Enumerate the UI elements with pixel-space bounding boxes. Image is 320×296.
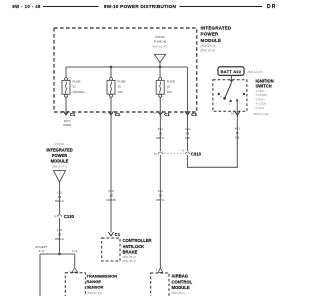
feed connector triangle xyxy=(154,54,165,62)
svg-text:C3: C3 xyxy=(191,112,197,117)
switch contact off xyxy=(218,93,223,98)
header rule right xyxy=(180,6,263,8)
wire to airbag module xyxy=(159,115,161,268)
wire label F20 18 RD/DB xyxy=(106,189,115,202)
svg-text:BR/LG: BR/LG xyxy=(55,199,65,203)
svg-text:DR: DR xyxy=(267,4,277,10)
svg-text:INTEGRATED: INTEGRATED xyxy=(201,25,232,30)
fuse F35 xyxy=(107,78,115,98)
wire to abs controller xyxy=(110,115,112,233)
fuse F32 value label xyxy=(167,79,175,93)
wire contact to pin 14 xyxy=(236,100,238,114)
wire label L10 18 BR/LG lower xyxy=(55,228,65,241)
bus wire xyxy=(66,66,188,68)
svg-text:31: 31 xyxy=(73,85,77,89)
svg-text:(8W-10-26): (8W-10-26) xyxy=(254,112,269,116)
airbag pin 8 xyxy=(156,268,163,273)
svg-text:FUSE: FUSE xyxy=(118,79,126,83)
wire bus to fuse32 xyxy=(159,67,161,117)
svg-text:FROM: FROM xyxy=(55,142,64,146)
connector C310 xyxy=(154,150,202,157)
svg-text:18: 18 xyxy=(58,195,62,199)
wire triangle to tee xyxy=(59,182,61,254)
svg-text:DB/YL: DB/YL xyxy=(156,136,165,140)
svg-text:DB/YL: DB/YL xyxy=(156,198,165,202)
airbag control module box xyxy=(151,273,169,296)
svg-text:(8W-12-47): (8W-12-47) xyxy=(152,45,167,49)
svg-text:F20: F20 xyxy=(108,189,114,193)
svg-text:POWER: POWER xyxy=(52,153,68,158)
svg-text:FUSE: FUSE xyxy=(167,79,175,83)
node junction fuse32 xyxy=(159,66,162,69)
svg-text:BRAKE: BRAKE xyxy=(123,250,138,255)
svg-text:18: 18 xyxy=(186,132,190,136)
svg-text:14: 14 xyxy=(231,111,235,115)
svg-text:8W - 10 - 48: 8W - 10 - 48 xyxy=(12,4,41,9)
integrated power module box xyxy=(54,28,197,112)
svg-text:5 ACC: 5 ACC xyxy=(256,106,266,110)
not used note xyxy=(63,119,72,127)
svg-text:MODULE: MODULE xyxy=(201,38,222,43)
node junction fuse35 xyxy=(110,66,113,69)
svg-text:AIRBAG: AIRBAG xyxy=(172,274,189,279)
except 3.7L branch label xyxy=(35,245,47,253)
wire label A41 18 DB right xyxy=(235,127,241,140)
batt A22 source box xyxy=(218,67,263,76)
svg-text:34: 34 xyxy=(53,215,57,219)
svg-text:FUSE: FUSE xyxy=(73,79,81,83)
fuse F35 value label xyxy=(118,79,126,93)
airbag control module label xyxy=(172,274,193,295)
integrated power module label xyxy=(201,25,232,52)
transmission range sensor label xyxy=(87,273,118,295)
svg-text:(8W-10-47): (8W-10-47) xyxy=(52,164,67,168)
tee junction wire xyxy=(40,253,75,255)
fuse F32 xyxy=(156,78,164,98)
svg-text:SWITCH: SWITCH xyxy=(256,83,272,88)
controller antilock brake box xyxy=(102,238,120,261)
wire except branch off page xyxy=(39,254,41,296)
svg-text:15: 15 xyxy=(153,111,157,115)
svg-text:(8W-31-15): (8W-31-15) xyxy=(87,291,102,295)
svg-text:CONTROLLER: CONTROLLER xyxy=(123,238,152,243)
svg-text:(8W-10-3): (8W-10-3) xyxy=(201,48,215,52)
svg-text:L10: L10 xyxy=(57,228,62,232)
wire bus to fuse35 xyxy=(110,67,112,117)
fuse F31 xyxy=(62,78,70,98)
switch contact acc xyxy=(241,93,245,98)
node tee xyxy=(58,253,61,256)
header rule left xyxy=(43,6,99,8)
svg-text:3.7L: 3.7L xyxy=(39,249,45,253)
pin 15 C1 xyxy=(153,111,171,117)
svg-text:POWER: POWER xyxy=(201,32,220,37)
svg-text:32: 32 xyxy=(167,85,171,89)
svg-text:CONTROL: CONTROL xyxy=(172,279,193,284)
svg-text:DB: DB xyxy=(235,135,239,139)
svg-text:18: 18 xyxy=(109,193,113,197)
svg-text:35: 35 xyxy=(118,85,122,89)
svg-text:MODULE: MODULE xyxy=(172,285,190,290)
switch contact run xyxy=(229,100,231,106)
ignition switch pivot xyxy=(223,97,226,100)
pin 4 C1 (not used) xyxy=(60,111,76,117)
svg-text:18: 18 xyxy=(236,131,240,135)
abs pin 2 C1 xyxy=(105,232,121,237)
svg-text:ANTILOCK: ANTILOCK xyxy=(123,244,145,249)
svg-text:C1: C1 xyxy=(115,112,121,117)
from ipm connector triangle xyxy=(54,171,66,182)
svg-text:BATT A22: BATT A22 xyxy=(221,69,242,74)
svg-text:F12: F12 xyxy=(158,189,164,193)
svg-text:SENSOR: SENSOR xyxy=(87,285,104,290)
pin 2 C1 xyxy=(105,111,121,117)
svg-text:(8W-45-2): (8W-45-2) xyxy=(172,291,185,295)
ignition switch label xyxy=(254,78,274,116)
svg-text:MODULE: MODULE xyxy=(51,159,69,164)
svg-text:11: 11 xyxy=(180,111,183,115)
svg-text:36: 36 xyxy=(154,152,158,156)
svg-text:TRANSMISSION: TRANSMISSION xyxy=(87,273,118,278)
ignition switch box xyxy=(213,80,247,112)
wire triangle to bus xyxy=(159,62,161,67)
svg-text:DB: DB xyxy=(185,136,189,140)
svg-text:C1: C1 xyxy=(115,232,121,237)
wire bus right leg to pin C3 xyxy=(187,67,189,117)
svg-text:C130: C130 xyxy=(64,214,75,219)
svg-text:10A: 10A xyxy=(167,90,172,94)
from fuse 36 label xyxy=(152,35,167,49)
svg-text:(SPARE): (SPARE) xyxy=(73,90,85,94)
wire label F12 18 DB/YL upper xyxy=(156,127,165,140)
svg-text:18: 18 xyxy=(159,193,163,197)
svg-text:INTEGRATED: INTEGRATED xyxy=(46,147,72,152)
batt feed arrow xyxy=(230,80,234,83)
transmission range sensor box xyxy=(65,273,85,296)
svg-text:(8W-10-26): (8W-10-26) xyxy=(248,70,263,74)
wire label A41 18 DB left xyxy=(185,127,191,140)
svg-text:RD/DB: RD/DB xyxy=(106,198,115,202)
svg-text:18: 18 xyxy=(159,132,163,136)
svg-text:L10: L10 xyxy=(57,190,62,194)
wire label F12 18 DB/YL lower xyxy=(156,189,165,202)
svg-text:(8W-35-3): (8W-35-3) xyxy=(123,259,136,263)
svg-text:F12: F12 xyxy=(158,127,164,131)
svg-text:FUSE 36: FUSE 36 xyxy=(154,39,167,43)
wire 3.7L branch xyxy=(74,254,76,268)
svg-text:USED: USED xyxy=(63,123,72,127)
svg-text:3.7L: 3.7L xyxy=(72,249,78,253)
svg-text:8W-10 POWER DISTRIBUTION: 8W-10 POWER DISTRIBUTION xyxy=(104,4,177,9)
svg-text:10A: 10A xyxy=(118,90,123,94)
pin 14 xyxy=(231,111,240,115)
trs connector triangle xyxy=(69,268,78,273)
controller antilock brake label xyxy=(123,238,152,263)
wire bus to fuse31 xyxy=(65,67,67,114)
svg-text:A41: A41 xyxy=(235,127,241,131)
svg-text:RANGE: RANGE xyxy=(87,279,102,284)
ignition switch wiper xyxy=(225,83,232,99)
switch contact start xyxy=(236,99,241,104)
svg-text:(8W-10-2): (8W-10-2) xyxy=(201,44,215,48)
svg-text:C1: C1 xyxy=(164,112,170,117)
fuse F31 value label xyxy=(73,79,85,93)
svg-text:C1: C1 xyxy=(70,112,76,117)
svg-text:C310: C310 xyxy=(191,151,202,156)
svg-text:A41: A41 xyxy=(185,127,191,131)
from integrated power module label xyxy=(46,142,72,169)
svg-text:18: 18 xyxy=(58,232,62,236)
wire label L10 18 BR/LG upper xyxy=(55,190,65,203)
svg-text:BR/LG: BR/LG xyxy=(55,237,65,241)
pin 11 C3 xyxy=(180,111,197,117)
connector C130 xyxy=(53,214,75,219)
wire ipm C3 to ignition switch xyxy=(188,115,238,168)
